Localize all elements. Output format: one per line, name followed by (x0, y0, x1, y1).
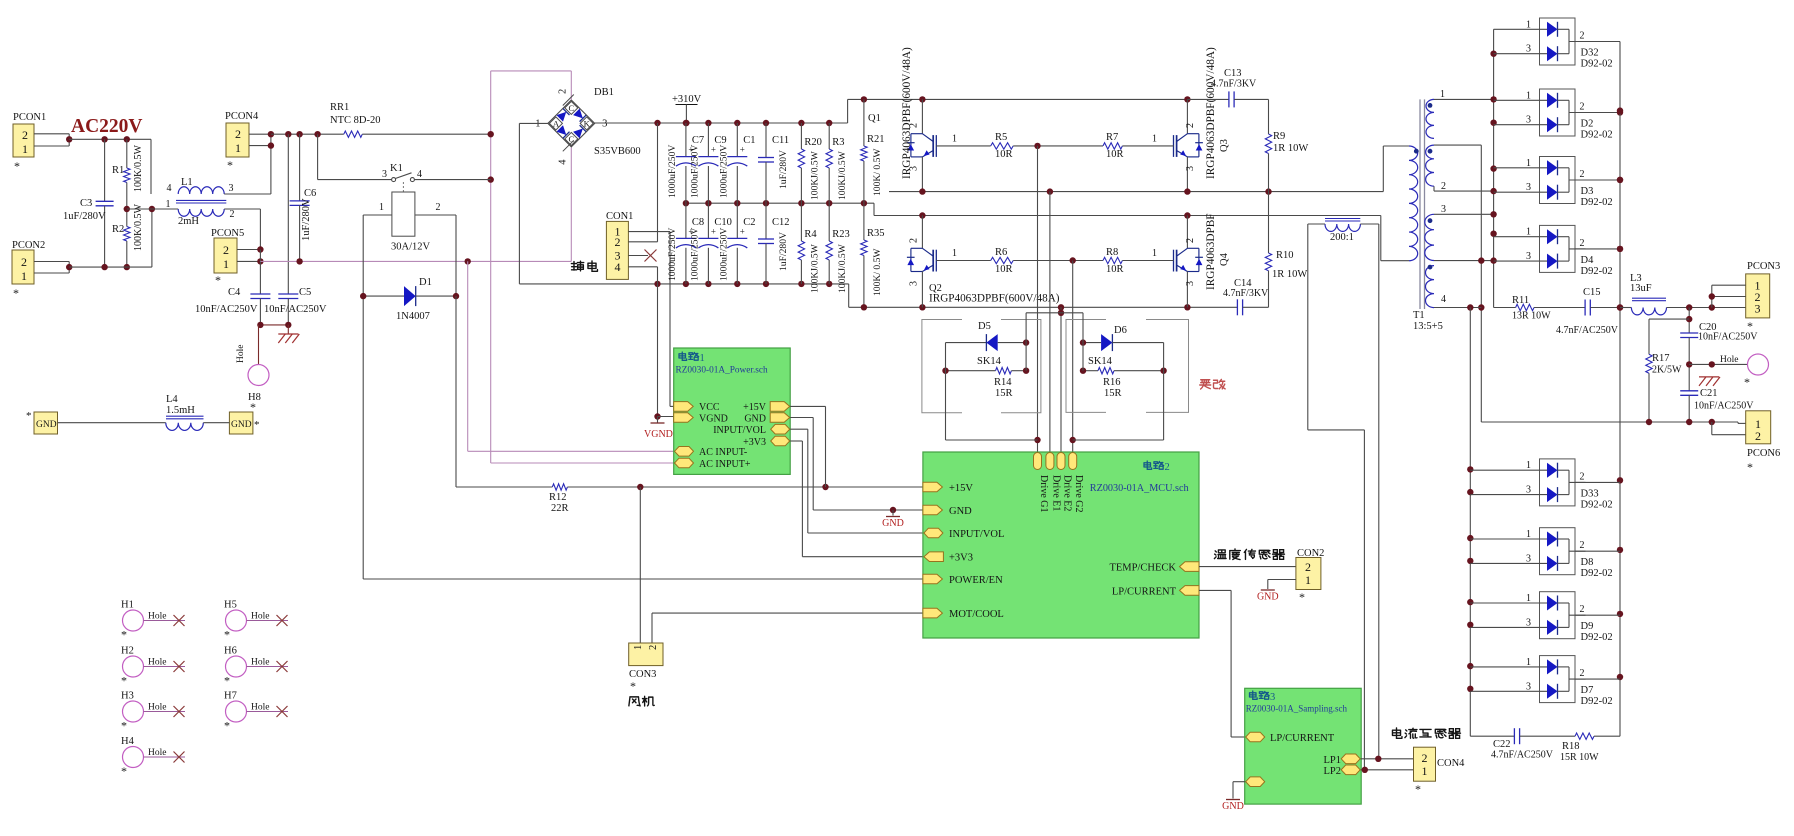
svg-text:3: 3 (1526, 182, 1531, 193)
svg-text:*: * (227, 158, 233, 172)
resistor R20 (800, 123, 802, 149)
svg-text:3: 3 (229, 183, 234, 194)
svg-text:2: 2 (557, 89, 568, 94)
wire drive E2 vertical (1060, 307, 1062, 452)
svg-text:2: 2 (22, 128, 28, 142)
wire CT left leg (1308, 223, 1325, 225)
capacitor C13 4.7nF/3KV (1187, 98, 1229, 100)
boundary box1 (922, 320, 1041, 413)
resistor R6 10R (991, 257, 1014, 263)
svg-text:Hole: Hole (251, 612, 269, 622)
wire LP/CURRENT link (1199, 589, 1231, 591)
pin VGND (674, 413, 694, 423)
svg-text:DB1: DB1 (594, 87, 614, 98)
resistor R17 2K/5W (1649, 318, 1689, 320)
svg-text:R21: R21 (867, 134, 885, 145)
svg-text:Hole: Hole (148, 612, 166, 622)
annotation red (1200, 380, 1211, 389)
svg-text:D8: D8 (1581, 557, 1594, 568)
svg-text:K1: K1 (390, 163, 403, 174)
capacitor C2 (736, 203, 738, 238)
dual diode D2 D92-02 (1540, 89, 1576, 136)
svg-text:LP/CURRENT: LP/CURRENT (1112, 586, 1177, 597)
svg-text:10R: 10R (995, 149, 1013, 160)
svg-text:3: 3 (1526, 681, 1531, 692)
sheet block circuit1 RZ0030-01A_Power.sch (674, 348, 791, 474)
relay coil K1 30A/12V (402, 182, 404, 192)
sheet block circuit2 RZ0030-01A_MCU.sch (923, 452, 1199, 638)
svg-text:100K/0.5W: 100K/0.5W (133, 204, 144, 252)
svg-text:2: 2 (1185, 123, 1196, 128)
svg-text:R14: R14 (994, 377, 1012, 388)
svg-text:10R: 10R (995, 264, 1013, 275)
svg-text:2: 2 (230, 209, 235, 220)
svg-text:4: 4 (1441, 294, 1446, 305)
svg-text:R7: R7 (1106, 132, 1118, 143)
svg-text:GND: GND (744, 414, 766, 425)
pin +15V out (770, 402, 790, 412)
wire CON3 pin2 riser (651, 613, 653, 643)
svg-text:2: 2 (1580, 604, 1585, 615)
svg-text:VGND: VGND (699, 414, 728, 425)
boundary box2 (1066, 320, 1189, 413)
svg-text:*: * (13, 286, 19, 300)
svg-text:R2: R2 (112, 224, 124, 235)
transformer dots (1414, 149, 1419, 154)
svg-text:RZ0030-01A_Sampling.sch: RZ0030-01A_Sampling.sch (1246, 703, 1348, 713)
svg-text:1000uF/250V: 1000uF/250V (689, 145, 700, 198)
pin Drive G2 (1069, 453, 1077, 470)
svg-text:+: + (740, 145, 745, 155)
wire top gate line (936, 145, 990, 147)
wire CT right leg (1360, 223, 1379, 225)
svg-text:2: 2 (648, 645, 659, 650)
pin MOT/COOL (923, 608, 943, 618)
wire CON1 pin4 (628, 266, 657, 268)
transformer T1 secondary s2 (1426, 145, 1434, 186)
svg-text:1: 1 (223, 257, 229, 271)
svg-text:C6: C6 (304, 188, 316, 199)
capacitor C14 4.7nF/3KV (1236, 299, 1238, 315)
svg-text:*: * (26, 410, 32, 422)
svg-text:C22: C22 (1493, 739, 1511, 750)
resistor R7 10R (1103, 143, 1122, 149)
transformer T1 core (1419, 99, 1421, 309)
svg-text:*: * (1747, 460, 1753, 474)
svg-text:1: 1 (1440, 89, 1445, 100)
svg-text:1: 1 (1526, 593, 1531, 604)
svg-text:1: 1 (379, 202, 384, 213)
resistor R2 (126, 183, 128, 227)
wire gate2 to Q4 (1122, 260, 1173, 262)
svg-text:Drive E2: Drive E2 (1062, 475, 1073, 511)
pin LP/CURRENT in (1246, 732, 1265, 742)
wire +3V3 link (790, 440, 802, 442)
wire bottom gate line (936, 260, 990, 262)
wire relay pin2 (415, 214, 456, 216)
dual diode D3 D92-02 (1540, 157, 1576, 204)
wire AC live top (69, 138, 151, 140)
resistor R10 1R 10W (1268, 192, 1270, 253)
wire PCON4 line east (271, 133, 344, 135)
wire neutral to L1 pin1 line (151, 209, 153, 267)
power port GND mid (892, 510, 894, 516)
svg-text:100K/ 0.5W: 100K/ 0.5W (872, 248, 883, 296)
svg-text:3: 3 (1526, 44, 1531, 55)
svg-text:4: 4 (615, 260, 621, 274)
wire DB1 pin1 to minus bus (519, 122, 548, 124)
sheet block circuit3 RZ0030-01A_Sampling.sch (1245, 688, 1362, 804)
pin AC INPUT- (675, 447, 694, 457)
svg-text:2: 2 (1580, 668, 1585, 679)
wire AC neutral (69, 266, 152, 268)
wire AC neutral east pink (260, 260, 571, 262)
transistor Q3 (1186, 99, 1188, 133)
wire D5 left leg (945, 343, 947, 440)
svg-text:1: 1 (1526, 529, 1531, 540)
svg-text:H2: H2 (121, 646, 134, 657)
pin AC INPUT+ (675, 458, 694, 468)
pin Drive E1 (1046, 453, 1054, 470)
svg-text:10R: 10R (1106, 264, 1124, 275)
svg-text:D92-02: D92-02 (1581, 499, 1613, 510)
wire CON1 pin1 to VCC (628, 231, 670, 233)
svg-text:+310V: +310V (672, 94, 702, 105)
label fan (629, 697, 640, 706)
wire secondary bus A (1480, 145, 1482, 422)
svg-text:D92-02: D92-02 (1581, 59, 1613, 70)
inductor L3 13uF (1620, 307, 1631, 309)
svg-text:D4: D4 (1581, 255, 1595, 266)
svg-text:Drive G1: Drive G1 (1038, 475, 1049, 513)
wire +15V link (790, 405, 825, 407)
wire violet to AC INPUT+ (491, 462, 674, 464)
svg-text:1uF/280V: 1uF/280V (63, 211, 106, 222)
svg-text:C4: C4 (228, 287, 241, 298)
svg-text:1: 1 (1526, 90, 1531, 101)
svg-text:4: 4 (557, 159, 568, 165)
wire bottom bank feed (1434, 307, 1481, 309)
transformer T1 secondary s1 (1426, 99, 1434, 138)
wire CON2 pin1 gnd (1268, 579, 1296, 581)
svg-text:22R: 22R (551, 503, 569, 514)
svg-text:GND: GND (1257, 592, 1279, 603)
svg-text:AC INPUT+: AC INPUT+ (699, 459, 751, 470)
wire CON1 pin3 nc (628, 255, 648, 257)
capacitor C1 (736, 123, 738, 157)
svg-text:1: 1 (1526, 19, 1531, 30)
pin LP1 (1341, 754, 1360, 764)
svg-text:D92-02: D92-02 (1581, 130, 1613, 141)
connector PCON2 (12, 250, 34, 284)
svg-text:IRGP4063DPBF(600V/48A): IRGP4063DPBF(600V/48A) (929, 293, 1060, 305)
wire snubber bottom (1470, 735, 1514, 737)
svg-text:4: 4 (417, 169, 422, 180)
svg-text:3: 3 (909, 281, 920, 286)
dual diode D4 D92-02 (1540, 225, 1576, 272)
bridge diodes (556, 112, 566, 122)
svg-text:+3V3: +3V3 (743, 437, 766, 448)
svg-text:R9: R9 (1273, 131, 1285, 142)
igbt body (1187, 247, 1199, 249)
pin +15V in (923, 482, 943, 492)
resistor R1 (126, 139, 128, 168)
capacitor C21 10nF/AC250V (1680, 390, 1698, 392)
svg-text:1: 1 (1422, 764, 1428, 778)
svg-text:*: * (254, 419, 260, 431)
svg-text:TEMP/CHECK: TEMP/CHECK (1109, 563, 1176, 574)
diode D5 SK14 (946, 342, 987, 344)
hole H8 (258, 325, 260, 365)
capacitor C12 (765, 203, 767, 239)
svg-text:2: 2 (1580, 31, 1585, 42)
wire PCON6 pin2 (1711, 422, 1713, 435)
pin VCC (674, 402, 694, 412)
svg-text:PCON6: PCON6 (1747, 448, 1780, 459)
resistor R35 (863, 203, 865, 240)
svg-text:Hole: Hole (148, 703, 166, 713)
ground net GND boxes with L4 (34, 412, 58, 434)
svg-text:100KJ/0.5W: 100KJ/0.5W (837, 150, 848, 200)
svg-text:1N4007: 1N4007 (396, 311, 430, 322)
svg-text:+: + (711, 145, 716, 155)
svg-text:Q1: Q1 (868, 113, 881, 124)
svg-text:15R: 15R (1104, 388, 1122, 399)
svg-text:10nF/AC250V: 10nF/AC250V (1698, 332, 1758, 343)
svg-text:D92-02: D92-02 (1581, 197, 1613, 208)
svg-text:*: * (630, 679, 636, 693)
svg-text:*: * (224, 719, 230, 733)
transistor Q4 (1186, 216, 1188, 249)
svg-text:1: 1 (22, 142, 28, 156)
wire D2 output (1575, 112, 1620, 114)
svg-text:D5: D5 (978, 321, 991, 332)
wire bus1 emitters (889, 191, 1383, 193)
chassis earth right (1699, 376, 1719, 378)
capacitor C10 (707, 203, 709, 238)
svg-text:1: 1 (1526, 227, 1531, 238)
svg-text:RR1: RR1 (330, 102, 349, 113)
connector CON2 (1296, 558, 1321, 590)
svg-text:R12: R12 (549, 492, 567, 503)
svg-text:Q4: Q4 (1219, 252, 1230, 266)
wire hole tap (1689, 363, 1747, 365)
svg-text:+15V: +15V (743, 402, 767, 413)
diode D1 1N4007 (363, 295, 404, 297)
resistor R21 (863, 99, 865, 146)
svg-text:3: 3 (1526, 251, 1531, 262)
svg-text:2: 2 (1580, 169, 1585, 180)
wire D6 right leg (1163, 343, 1165, 440)
transistor Q2 (921, 216, 923, 249)
svg-text:2: 2 (1580, 540, 1585, 551)
pin +3V3 in (924, 552, 944, 562)
svg-text:IRGP4063DPBF(600V/48A): IRGP4063DPBF(600V/48A) (901, 47, 913, 179)
capacitor C20 10nF/AC250V (1688, 308, 1690, 334)
resistor R3 (828, 123, 830, 149)
power port GND block3 (1226, 799, 1240, 801)
wire relay pin1 to POWER/EN (363, 214, 392, 216)
svg-text:H5: H5 (224, 600, 237, 611)
wire D7 output (1575, 678, 1620, 680)
svg-text:GND: GND (882, 518, 904, 529)
transformer T1 secondary s4 (1426, 266, 1435, 308)
svg-text:4.7nF/3KV: 4.7nF/3KV (1223, 288, 1269, 299)
svg-text:R18: R18 (1562, 741, 1580, 752)
svg-text:H6: H6 (224, 646, 237, 657)
wire AC live violet loop (490, 71, 492, 463)
diode D6 SK14 (1083, 342, 1101, 344)
svg-text:200:1: 200:1 (1330, 232, 1354, 243)
svg-text:1000uF/250V: 1000uF/250V (718, 145, 729, 198)
wire TEMP/CHECK to CON2 (1199, 566, 1296, 568)
svg-text:C: C (568, 103, 574, 113)
pin POWER/EN (923, 574, 943, 584)
svg-text:*: * (121, 764, 127, 778)
wire D32 output (1575, 41, 1620, 43)
wire Y-cap ground (259, 324, 289, 326)
power port GND con2 (1261, 589, 1275, 591)
pin GND out (770, 413, 790, 423)
svg-text:GND: GND (36, 420, 57, 430)
dual diode D7 D92-02 (1540, 656, 1576, 703)
wire bus stair up (847, 99, 849, 123)
svg-text:2: 2 (21, 255, 27, 269)
wire POWER/EN (363, 578, 923, 580)
svg-text:Drive E1: Drive E1 (1050, 475, 1061, 511)
svg-text:2: 2 (1580, 238, 1585, 249)
pin aux gnd (1246, 777, 1265, 787)
svg-text:D9: D9 (1581, 621, 1594, 632)
svg-text:1: 1 (1526, 460, 1531, 471)
wire drive E1 vertical (1049, 192, 1051, 452)
svg-text:2: 2 (1185, 238, 1196, 243)
svg-text:GND: GND (231, 420, 252, 430)
svg-text:H7: H7 (224, 691, 237, 702)
svg-text:R35: R35 (867, 228, 885, 239)
pin GND in (923, 505, 943, 515)
pin Drive G1 (1034, 453, 1042, 470)
transformer T1 secondary s3 (1425, 214, 1434, 260)
svg-text:Hole: Hole (148, 748, 166, 758)
pin +3V3 out (771, 436, 790, 446)
svg-text:H4: H4 (121, 736, 135, 747)
svg-text:SK14: SK14 (977, 356, 1002, 367)
svg-text:13:5+5: 13:5+5 (1413, 321, 1443, 332)
svg-text:+3V3: +3V3 (949, 553, 973, 564)
svg-text:1: 1 (1152, 134, 1157, 145)
label current transformer (1392, 728, 1401, 738)
svg-text:C2: C2 (743, 217, 755, 228)
dual diode D8 D92-02 (1540, 528, 1576, 575)
svg-text:1: 1 (633, 645, 644, 650)
svg-text:2mH: 2mH (178, 216, 199, 227)
wire INPUT/VOL link (790, 428, 808, 430)
svg-text:R16: R16 (1103, 377, 1121, 388)
svg-text:S35VB600: S35VB600 (594, 146, 641, 157)
svg-text:1000uF/250V: 1000uF/250V (667, 145, 678, 198)
svg-text:L1: L1 (181, 177, 193, 188)
svg-text:C1: C1 (743, 135, 755, 146)
power port VGND (657, 417, 659, 424)
svg-text:K: K (584, 118, 591, 128)
svg-text:1: 1 (166, 199, 171, 210)
inductor L1 common-mode choke 2mH (127, 208, 178, 210)
svg-text:1000uF/250V: 1000uF/250V (667, 228, 678, 281)
svg-text:100KJ/0.5W: 100KJ/0.5W (809, 243, 820, 293)
dual diode D33 D92-02 (1540, 459, 1576, 506)
svg-text:2: 2 (235, 127, 241, 141)
inductor L4 1.5mH (58, 422, 166, 424)
svg-text:POWER/EN: POWER/EN (949, 575, 1003, 586)
pin LP/CURRENT out (1180, 586, 1200, 596)
svg-text:D3: D3 (1581, 186, 1594, 197)
svg-text:*: * (1415, 782, 1421, 796)
svg-text:R10: R10 (1276, 250, 1294, 261)
svg-text:LP1: LP1 (1323, 755, 1341, 766)
svg-text:D1: D1 (419, 277, 432, 288)
resistor R16 15R (1083, 370, 1098, 372)
svg-text:C10: C10 (714, 217, 732, 228)
svg-text:1000uF/250V: 1000uF/250V (689, 228, 700, 281)
wire block3 gnd (1233, 781, 1245, 783)
svg-text:D92-02: D92-02 (1581, 266, 1613, 277)
wire gate2 mid (1013, 260, 1103, 262)
svg-text:15R: 15R (995, 388, 1013, 399)
pin Drive E2 (1057, 453, 1065, 470)
svg-text:*: * (121, 674, 127, 688)
svg-text:R17: R17 (1652, 353, 1670, 364)
wire CON1 pin2 +310 drop (628, 241, 657, 243)
svg-text:AC INPUT-: AC INPUT- (699, 447, 747, 458)
connector CON1 (606, 221, 628, 279)
svg-text:+15V: +15V (949, 483, 973, 494)
svg-text:100K/0.5W: 100K/0.5W (133, 145, 144, 193)
transistor Q1 IRGP4063DPBF (921, 99, 923, 133)
wire pink to AC INPUT- (467, 261, 469, 451)
wire emitter tie bar (1026, 312, 1083, 314)
wire gate line mid (1013, 145, 1103, 147)
chassis earth symbol (287, 325, 289, 334)
svg-text:D7: D7 (1581, 685, 1594, 696)
capacitor C6 (299, 134, 301, 201)
svg-text:2: 2 (1755, 429, 1761, 443)
wire LP2 to CON4 (1361, 769, 1414, 771)
svg-text:D92-02: D92-02 (1581, 632, 1613, 643)
svg-text:1: 1 (21, 269, 27, 283)
capacitor C8 (685, 203, 687, 238)
svg-text:2: 2 (1305, 560, 1311, 574)
wire D9 output (1575, 614, 1620, 616)
svg-text:PCON5: PCON5 (211, 228, 244, 239)
svg-text:10nF/AC250V: 10nF/AC250V (264, 304, 327, 315)
wire minus bus (519, 283, 848, 285)
wire L1 pin3 to PCON4 (224, 193, 271, 195)
svg-text:Hole: Hole (236, 345, 246, 363)
connector PCON1 (13, 124, 34, 157)
pin INPUT/VOL out (771, 424, 790, 434)
svg-text:3: 3 (1526, 553, 1531, 564)
wire PCON3 pins tie (1712, 284, 1746, 286)
wire bus2 to T1 bottom (874, 215, 1381, 217)
svg-text:2: 2 (1441, 181, 1446, 192)
pin TEMP/CHECK (1180, 562, 1200, 572)
svg-text:AC220V: AC220V (71, 116, 143, 137)
svg-text:GND: GND (949, 506, 972, 517)
svg-text:PCON4: PCON4 (225, 111, 259, 122)
svg-text:3: 3 (1755, 302, 1761, 316)
svg-text:1.5mH: 1.5mH (166, 405, 195, 416)
